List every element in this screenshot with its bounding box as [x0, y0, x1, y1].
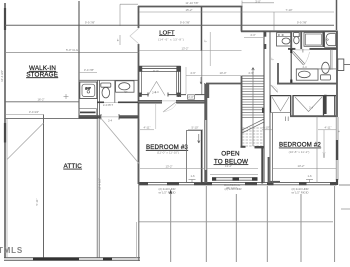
svg-text:(11'-0" x 11'-10"): (11'-0" x 11'-10"): [157, 150, 179, 154]
svg-text:11'-10 7/8": 11'-10 7/8": [185, 1, 198, 5]
wire bath1 bottom wall: [277, 83, 337, 85]
svg-text:w/ 1/2" RIGID: w/ 1/2" RIGID: [158, 191, 175, 195]
wire dim line y12: [120, 1, 334, 46]
svg-text:9'-9 7/8": 9'-9 7/8": [297, 20, 307, 24]
wire bedroom2 top wall: [290, 115, 336, 117]
wire bedroom3 south dim: [140, 168, 204, 170]
lower floor grid verticals: [171, 186, 335, 262]
fixture toilet2: [101, 83, 111, 98]
wire bath2 dim: [79, 72, 97, 74]
svg-text:15'-2": 15'-2": [185, 8, 192, 12]
wire closet2 right box: [293, 95, 324, 116]
svg-text:9'-9 7/8": 9'-9 7/8": [180, 20, 190, 24]
wire bedroom2 south dim: [273, 167, 336, 169]
node window box right: [338, 59, 344, 71]
svg-text:14'-6 3/4": 14'-6 3/4": [0, 70, 4, 82]
wire hall dim y37: [244, 37, 263, 39]
node hall cabinet box: [188, 95, 195, 99]
svg-text:13'-2": 13'-2": [165, 164, 172, 168]
wire top right wall: [241, 30, 338, 32]
wire attic top dim: [5, 114, 44, 116]
wire bedroom2 left wall: [269, 113, 271, 183]
wire bath1 wall a: [290, 31, 292, 49]
node bedroom2 hall door swing: [271, 85, 278, 92]
svg-text:2-4: 2-4: [309, 106, 313, 110]
node tub drain: [327, 39, 329, 41]
wire chase right wall: [201, 130, 203, 183]
svg-text:TMLS: TMLS: [0, 246, 23, 255]
svg-text:5'-10": 5'-10": [191, 126, 198, 130]
node railing: [210, 173, 258, 175]
svg-text:2-4: 2-4: [108, 119, 112, 123]
fixture toilet lower: [321, 62, 331, 80]
svg-text:2'-0": 2'-0": [188, 95, 194, 99]
wire top loft wall: [138, 6, 243, 8]
wire loft interior wall: [201, 7, 203, 51]
node bedroom3 door swing: [163, 102, 176, 112]
node stair arrow: [252, 68, 255, 76]
wire right wall dim extension: [336, 0, 338, 30]
node loft opening chevron: [130, 28, 139, 44]
wire stair left wall: [241, 76, 243, 147]
fixture vanity2: [116, 81, 134, 92]
svg-text:10'-0": 10'-0": [219, 71, 226, 75]
wire left outer wall: [5, 3, 7, 258]
wire attic roof diagonal: [7, 123, 44, 160]
node hall wall poche: [264, 32, 267, 37]
svg-text:5'-11": 5'-11": [35, 199, 39, 206]
svg-text:w/ 1/2" RIGID: w/ 1/2" RIGID: [291, 191, 308, 195]
wire long dim line y25: [5, 24, 334, 26]
svg-text:3'-0": 3'-0": [255, 0, 261, 3]
svg-text:5'-0": 5'-0": [153, 69, 159, 73]
wire bedroom2 interior line: [316, 117, 318, 184]
svg-text:ATTIC: ATTIC: [63, 163, 82, 170]
fixture tub: [325, 32, 337, 48]
wire bedroom3 east wall: [205, 83, 209, 183]
wire bottom attic wall: [4, 258, 140, 260]
fixture shower2: [80, 82, 97, 99]
svg-text:(10'-8" x 11'-2"): (10'-8" x 11'-2"): [289, 150, 310, 154]
svg-text:9'-9 7/8": 9'-9 7/8": [85, 20, 95, 24]
node closet door swing: [148, 82, 165, 96]
wire bath lower divider: [302, 49, 304, 53]
svg-text:(2) 2x10 HDR: (2) 2x10 HDR: [224, 187, 241, 191]
svg-text:13'-2": 13'-2": [297, 164, 304, 168]
wire stair hall wall: [206, 83, 242, 85]
node closet2 right bifold: [295, 97, 322, 112]
wire bath2 top line: [79, 79, 138, 81]
wire closet bottom wall: [139, 93, 205, 97]
svg-text:5": 5": [203, 40, 207, 43]
wire attic left line: [43, 115, 45, 259]
wire stair top edge: [242, 75, 264, 77]
wire bottom right vertical: [138, 184, 140, 261]
node storage corner tick: [64, 94, 69, 99]
svg-text:OPEN: OPEN: [221, 151, 240, 158]
fixture toilet1: [294, 33, 300, 44]
wire stair bottom nosing: [255, 146, 265, 148]
svg-text:5": 5": [271, 58, 275, 61]
svg-text:5'-0" CLG: 5'-0" CLG: [66, 48, 78, 52]
wire right stub line: [339, 184, 350, 186]
wire bath wc divider: [330, 49, 332, 70]
svg-text:BEDROOM #2: BEDROOM #2: [279, 142, 321, 149]
svg-text:1-6: 1-6: [307, 174, 311, 178]
svg-text:3'-0 3/4": 3'-0 3/4": [29, 110, 39, 114]
wire lower grid horizontal: [139, 221, 333, 223]
wire hall east wall pair: [263, 31, 265, 183]
wire toilet-vanity divider: [114, 80, 116, 103]
svg-text:5": 5": [337, 130, 341, 133]
node chase box bedroom3: [187, 130, 202, 182]
svg-text:4'-6": 4'-6": [190, 71, 196, 75]
svg-text:4'-11": 4'-11": [144, 126, 151, 130]
node bath2 door: [100, 114, 102, 120]
wire loft right wall: [241, 6, 243, 32]
wire shower-toilet wall: [97, 80, 99, 119]
svg-text:3'-0": 3'-0": [85, 87, 90, 91]
svg-text:3'-0 7/8": 3'-0 7/8": [84, 68, 94, 72]
wire closet2 left box: [271, 95, 291, 116]
svg-text:2-4: 2-4: [154, 90, 158, 94]
svg-text:2-4 PKT: 2-4 PKT: [103, 103, 114, 107]
svg-text:7'-10": 7'-10": [285, 8, 292, 12]
node stair wall block: [262, 108, 264, 113]
wire short wall x278: [277, 63, 279, 84]
wire open-below right wall lower: [261, 147, 263, 184]
svg-text:40": 40": [123, 90, 127, 94]
fixture linen shelves: [79, 109, 97, 116]
svg-text:13'-2": 13'-2": [181, 46, 188, 50]
wire bedroom3 top wall: [138, 101, 206, 103]
node bedroom2 door jambs: [285, 117, 287, 122]
svg-text:13'-2": 13'-2": [225, 164, 232, 168]
svg-text:4'-10": 4'-10": [262, 126, 269, 130]
svg-text:(14'-6" x 13'-8"): (14'-6" x 13'-8"): [158, 37, 184, 41]
node stair break line: [242, 119, 264, 130]
svg-text:STORAGE: STORAGE: [26, 71, 58, 78]
wire hall dim extension x210: [209, 32, 211, 66]
wire closet dim: [185, 67, 187, 94]
wire side attic diagonal: [102, 120, 139, 164]
svg-text:2-4: 2-4: [302, 65, 306, 69]
svg-text:5": 5": [116, 39, 120, 42]
wire bath1 left wall: [290, 49, 292, 84]
wire bottom main wall: [139, 182, 337, 185]
svg-text:1-6: 1-6: [190, 174, 194, 178]
stair treads lower dashed: [242, 128, 264, 146]
fixture shower1: [304, 33, 323, 47]
svg-text:LOFT: LOFT: [159, 30, 175, 36]
node leader arrow: [169, 190, 172, 194]
wire open-below corner wall: [268, 157, 270, 183]
wire bedroom2 dims: [262, 130, 336, 158]
fixture vanity lower: [296, 69, 336, 80]
wire bath divider wall y49: [288, 48, 295, 50]
wire bedroom3 dims: [140, 104, 203, 130]
svg-text:4'-0": 4'-0": [250, 33, 256, 37]
wire right outer wall: [336, 31, 338, 186]
node closet2 left bifold: [272, 97, 289, 111]
node bath door swing: [292, 51, 310, 65]
svg-text:4'-11": 4'-11": [325, 126, 332, 130]
wire stair center line: [252, 76, 254, 146]
wire knee wall line y52: [5, 52, 139, 54]
wire west bedroom3 wall: [138, 6, 140, 184]
wire bedroom2 nook: [325, 95, 337, 116]
wire bath2 bottom double wall: [79, 116, 139, 118]
wire hall dim y75.5: [186, 75, 264, 77]
wire loft south dim: [139, 50, 242, 52]
wire closet top wall: [139, 66, 181, 97]
stair treads: [242, 79, 264, 118]
svg-text:12'-3 1/2": 12'-3 1/2": [98, 178, 102, 190]
wire bath1 wall b: [300, 31, 302, 49]
wire bedroom3 strip left wall: [97, 117, 99, 258]
wire storage bottom line: [5, 101, 79, 103]
wire storage right wall: [78, 1, 80, 119]
wire attic top line: [5, 118, 97, 120]
fixture vanity1: [277, 33, 292, 46]
svg-text:16'-2": 16'-2": [37, 98, 44, 102]
wire bath2 south wall upper: [97, 101, 104, 103]
